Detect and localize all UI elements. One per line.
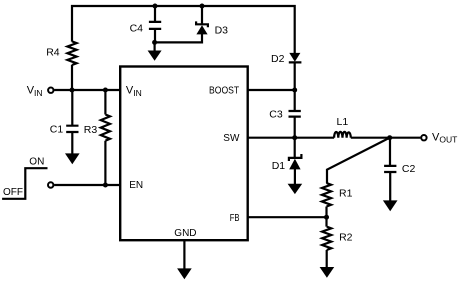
wire SW pin to inductor [248,137,334,139]
node VIN rail / C1 [70,88,75,93]
wire FB pin [248,216,327,218]
svg-text:BOOST: BOOST [209,85,239,96]
resistor R3 [84,90,110,185]
node VOUT junction [387,135,392,140]
node top rail / D3 [200,4,205,9]
resistor R1 [322,183,353,217]
svg-text:VOUT: VOUT [432,132,457,145]
capacitor C1 [50,90,79,155]
inductor L1 [334,116,351,138]
svg-text:R1: R1 [339,187,353,199]
svg-text:SW: SW [223,133,240,144]
svg-text:GND: GND [174,228,196,239]
resistor R4 [46,41,76,65]
svg-text:R2: R2 [339,232,353,244]
IC U1 body [120,67,248,241]
ground below D1 [288,184,303,194]
svg-text:EN: EN [129,180,143,191]
svg-text:R3: R3 [84,124,98,136]
node C4 / D3 / ground [152,40,157,45]
wire L1 to VOUT terminal [351,137,421,139]
diode D1 schottky [272,138,303,185]
ground below C4 [148,42,162,60]
ground below C2 [383,200,398,211]
wire D3 bottom to C4 bottom node [155,34,202,43]
node FB / R1 / R2 [324,215,329,220]
svg-text:FB: FB [230,213,240,224]
capacitor C3 [269,90,301,138]
resistor R2 [322,217,353,268]
svg-text:C3: C3 [269,108,283,120]
svg-text:L1: L1 [337,116,349,128]
ground below R2 [320,267,335,278]
switch waveform ON/OFF step [2,168,47,199]
capacitor C4 [130,6,162,42]
wire top rail from R4 up across to D2 [72,6,295,53]
wire R4 bottom to VIN rail [71,65,73,90]
diode D2 [271,53,301,90]
terminal EN circle [48,182,53,187]
terminal VOUT circle [421,135,426,140]
wire VIN rail [54,89,120,91]
node top rail / C4 [153,4,158,9]
svg-text:OFF: OFF [3,187,23,198]
wire BOOST pin to right rail [248,89,295,91]
svg-text:R4: R4 [46,46,60,58]
svg-text:D3: D3 [215,24,229,36]
svg-text:C1: C1 [50,123,64,135]
svg-text:ON: ON [29,156,44,167]
ground below C1 [65,153,80,164]
node BOOST [292,88,297,93]
svg-text:D2: D2 [271,53,285,65]
svg-text:VIN: VIN [27,85,43,98]
node SW / D1 [292,135,297,140]
capacitor C2 [384,138,415,202]
diode D3 schottky [195,6,228,36]
svg-text:D1: D1 [272,160,286,172]
ground below GND pin [177,268,192,279]
svg-text:C4: C4 [130,23,144,35]
node EN rail / R3 [103,183,108,188]
svg-text:VIN: VIN [126,85,142,98]
svg-text:C2: C2 [402,163,416,175]
wire EN rail [54,184,120,186]
terminal VIN circle [48,88,53,93]
node VIN rail / R3 [103,88,108,93]
wire GND pin [183,240,185,269]
wire diagonal VOUT node to R1 [327,138,390,184]
